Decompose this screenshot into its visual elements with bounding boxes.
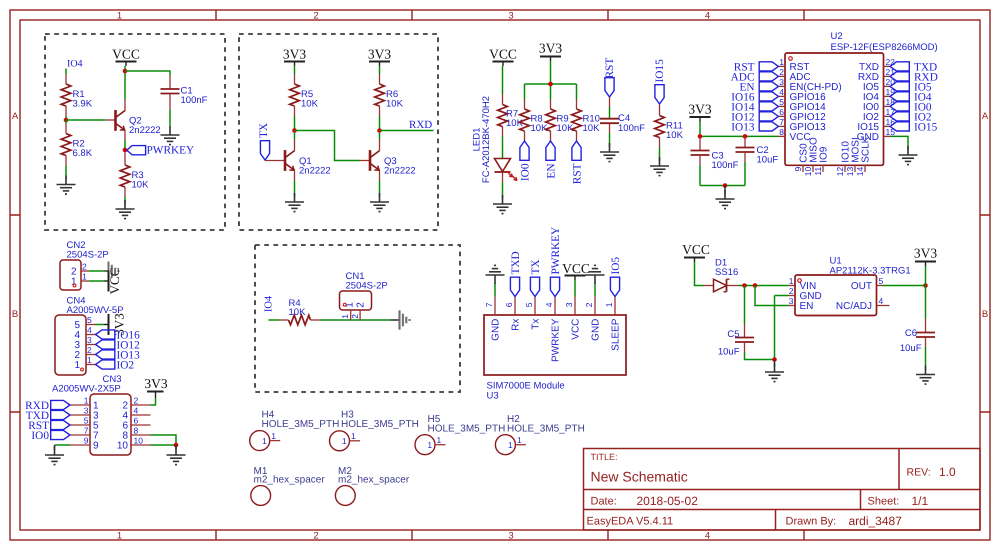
capacitor C5 10uF bbox=[718, 329, 754, 358]
CN3 pin 6 bbox=[122, 416, 150, 432]
svg-text:PWRKEY: PWRKEY bbox=[550, 227, 562, 275]
svg-text:1: 1 bbox=[437, 435, 442, 445]
svg-text:Date:: Date: bbox=[591, 496, 617, 508]
capacitor C3 100nF bbox=[691, 136, 739, 171]
svg-text:TITLE:: TITLE: bbox=[591, 452, 618, 462]
svg-text:3V3: 3V3 bbox=[914, 246, 937, 261]
resistor R7 10K bbox=[498, 105, 524, 130]
node junction U1 ground bbox=[772, 357, 777, 362]
svg-text:PWRKEY: PWRKEY bbox=[551, 318, 562, 362]
node junction C2 top bbox=[743, 134, 748, 139]
svg-text:3: 3 bbox=[508, 11, 513, 22]
svg-text:4: 4 bbox=[879, 296, 884, 306]
svg-text:1: 1 bbox=[84, 396, 89, 406]
svg-text:4: 4 bbox=[134, 406, 139, 416]
net port RXD flag U2 right bbox=[890, 71, 938, 83]
ground under C6 bbox=[916, 366, 935, 385]
net port ADC flag U2 bbox=[731, 71, 779, 83]
U2 pin 17 IO2 bbox=[863, 107, 895, 123]
svg-text:1: 1 bbox=[508, 440, 513, 450]
net port IO5 flag U3 bbox=[610, 257, 622, 297]
svg-text:8: 8 bbox=[779, 127, 784, 137]
wire R1 to node bbox=[65, 106, 67, 120]
U2 pin 21 RXD bbox=[858, 67, 895, 83]
svg-text:RST: RST bbox=[604, 58, 616, 79]
wire CN2 pin2 to ground bbox=[89, 270, 105, 272]
svg-text:3V3: 3V3 bbox=[368, 47, 391, 62]
U3 pin 6 Rx bbox=[504, 297, 521, 331]
CN2 pin 2 bbox=[71, 262, 89, 278]
svg-text:2n2222: 2n2222 bbox=[299, 166, 331, 177]
svg-text:9: 9 bbox=[793, 167, 803, 172]
svg-text:IO4: IO4 bbox=[67, 59, 83, 70]
wire C5 to ground wire bbox=[745, 342, 775, 360]
svg-text:4: 4 bbox=[87, 325, 92, 335]
wire node to R2 bbox=[65, 120, 67, 134]
svg-text:GND: GND bbox=[591, 319, 602, 341]
wire 3V3 to R5 bbox=[294, 66, 296, 84]
ground under R11 bbox=[650, 157, 669, 176]
node junction Q3 collector bbox=[377, 128, 382, 133]
U2 pin 19 IO4 bbox=[863, 87, 895, 103]
svg-text:VCC: VCC bbox=[489, 47, 517, 62]
net port PWRKEY flag bbox=[127, 145, 194, 157]
svg-text:IO15: IO15 bbox=[654, 59, 666, 83]
resistor R5 10K bbox=[290, 84, 319, 110]
power 3V3 over C3 bbox=[688, 102, 711, 122]
svg-text:Sheet:: Sheet: bbox=[868, 496, 900, 508]
svg-text:TXD: TXD bbox=[510, 251, 522, 274]
node junction VCC/C1/Q2 bbox=[123, 69, 128, 74]
U1 pin 5 OUT bbox=[851, 276, 884, 292]
connector CN1 2504S-2P bbox=[340, 271, 388, 310]
U2 bottom pin 13 MOSI bbox=[845, 137, 861, 176]
svg-text:1: 1 bbox=[517, 435, 522, 445]
dashed group box 2 bbox=[239, 34, 438, 230]
svg-text:B: B bbox=[12, 309, 18, 320]
U2 pin 4 GPIO16 bbox=[779, 87, 827, 103]
svg-text:IO9: IO9 bbox=[818, 146, 829, 163]
svg-text:2: 2 bbox=[82, 262, 87, 272]
wire IO4 to R1 bbox=[65, 69, 67, 85]
svg-text:6: 6 bbox=[504, 302, 514, 307]
net port IO4 flag U2 right bbox=[890, 91, 932, 103]
wire R9 to EN flag bbox=[550, 131, 552, 141]
CN3 pin 8 bbox=[122, 426, 150, 442]
wire 3V3 to R6 bbox=[379, 66, 381, 84]
hole H5 bbox=[415, 414, 505, 455]
ground under C2 C3 bbox=[716, 186, 735, 209]
wire 3V3 bus to resistors bbox=[525, 61, 577, 109]
svg-text:2: 2 bbox=[313, 531, 318, 542]
power 3V3 at U1 OUT bbox=[914, 246, 937, 286]
svg-text:5: 5 bbox=[779, 97, 784, 107]
wire R4 to CN1 and ground bbox=[311, 319, 391, 321]
svg-text:2: 2 bbox=[779, 67, 784, 77]
svg-text:9: 9 bbox=[84, 436, 89, 446]
U2 pin 1 RST bbox=[779, 57, 810, 73]
spacer M2 bbox=[335, 466, 409, 506]
node junction Q1 collector bbox=[292, 128, 297, 133]
ground under Q1 bbox=[285, 193, 304, 212]
net port IO2 flag CN4 bbox=[96, 360, 135, 372]
wire OUT to C6 bbox=[925, 286, 927, 333]
svg-text:1.0: 1.0 bbox=[939, 465, 956, 479]
svg-text:1: 1 bbox=[82, 272, 87, 282]
net port RST flag U2 bbox=[734, 61, 779, 73]
transistor Q2 2n2222 bbox=[116, 99, 161, 148]
ground above U3 pin7 bbox=[486, 265, 505, 296]
svg-text:m2_hex_spacer: m2_hex_spacer bbox=[254, 474, 326, 485]
svg-text:1: 1 bbox=[262, 436, 267, 446]
wire 3V3 to U2 VCC pin bbox=[700, 122, 779, 137]
svg-text:2: 2 bbox=[584, 302, 594, 307]
svg-text:5: 5 bbox=[879, 276, 884, 286]
svg-text:4: 4 bbox=[705, 531, 710, 542]
dashed group box 3 bbox=[255, 245, 460, 392]
net port IO0 flag U2 right bbox=[890, 101, 932, 113]
svg-text:6: 6 bbox=[134, 416, 139, 426]
capacitor C4 100nF bbox=[600, 113, 645, 134]
svg-text:SS16: SS16 bbox=[715, 267, 738, 278]
svg-text:3V3: 3V3 bbox=[144, 376, 167, 391]
svg-text:10: 10 bbox=[803, 167, 813, 177]
svg-text:2: 2 bbox=[87, 345, 92, 355]
svg-text:IO5: IO5 bbox=[610, 257, 622, 275]
node junction EN branch bbox=[753, 283, 758, 288]
svg-text:100nF: 100nF bbox=[618, 123, 645, 134]
wire VCC to R7 bbox=[502, 66, 504, 105]
U2 bottom pin 12 IO10 bbox=[835, 141, 851, 177]
svg-text:VCC: VCC bbox=[112, 47, 140, 62]
U2 pin 8 VCC bbox=[779, 127, 811, 143]
svg-text:B: B bbox=[982, 309, 988, 320]
capacitor C1 100nF bbox=[161, 86, 208, 107]
net port IO12 flag U2 bbox=[731, 111, 778, 123]
svg-text:3V3: 3V3 bbox=[688, 102, 711, 117]
svg-text:8: 8 bbox=[134, 426, 139, 436]
svg-text:2n2222: 2n2222 bbox=[384, 166, 416, 177]
power VCC over R7 bbox=[489, 47, 517, 67]
wire R3 to ground bbox=[124, 187, 126, 204]
net port EN flag bbox=[545, 141, 557, 179]
svg-text:3: 3 bbox=[564, 302, 574, 307]
svg-text:REV:: REV: bbox=[907, 467, 931, 479]
svg-text:100nF: 100nF bbox=[181, 95, 208, 106]
net port TX flag bbox=[258, 123, 270, 160]
svg-text:GND: GND bbox=[491, 319, 502, 341]
wire R10 to RST flag bbox=[576, 131, 578, 141]
node junction C3 top bbox=[698, 134, 703, 139]
U2 pin 20 IO5 bbox=[863, 77, 895, 93]
svg-text:2504S-2P: 2504S-2P bbox=[67, 250, 109, 261]
CN3 pin 7 bbox=[70, 426, 99, 442]
U2 pin 18 IO0 bbox=[863, 97, 895, 113]
wire R5 to node bbox=[294, 106, 296, 131]
U3 pin 4 PWRKEY bbox=[544, 297, 561, 362]
U2 bottom pin 11 IO9 bbox=[813, 146, 829, 175]
wire IO4 to R4 bbox=[269, 319, 289, 321]
wire CN3 pin9 to ground bbox=[55, 445, 71, 450]
power 3V3 over R8 R9 R10 bbox=[539, 41, 562, 62]
wire D1 cathode to U1 VIN bbox=[728, 285, 796, 287]
ground under R2 bbox=[57, 176, 76, 195]
CN4 pin 2 bbox=[74, 345, 95, 361]
wire C4 to ground bbox=[609, 123, 611, 147]
svg-text:VCC: VCC bbox=[571, 319, 582, 340]
diode D1 SS16 bbox=[714, 258, 739, 292]
svg-text:TX: TX bbox=[258, 123, 270, 138]
resistor R11 10K bbox=[655, 116, 684, 142]
power VCC box1 bbox=[112, 47, 140, 67]
U3 pin 5 Tx bbox=[524, 297, 541, 330]
svg-text:6: 6 bbox=[779, 107, 784, 117]
ground at CN3 pin9 bbox=[45, 446, 64, 465]
svg-text:3V3: 3V3 bbox=[539, 41, 562, 56]
U2 pin 6 GPIO12 bbox=[779, 107, 827, 123]
connector CN4 A2005WV-5P bbox=[55, 295, 124, 375]
svg-text:14: 14 bbox=[855, 167, 865, 177]
wire EN loop bbox=[755, 286, 789, 306]
svg-text:13: 13 bbox=[845, 167, 855, 177]
wire U1 GND down bbox=[775, 296, 789, 360]
net port IO16 flag U2 bbox=[731, 91, 778, 103]
svg-text:1: 1 bbox=[604, 302, 614, 307]
hole H3 bbox=[330, 409, 419, 451]
CN4 pin 5 bbox=[74, 315, 95, 331]
ground rotated at CN2 pin2 bbox=[105, 262, 119, 281]
svg-text:7: 7 bbox=[779, 117, 784, 127]
resistor R8 10K bbox=[520, 109, 548, 134]
svg-text:IO0: IO0 bbox=[31, 430, 49, 442]
svg-text:10uF: 10uF bbox=[900, 343, 922, 354]
svg-text:3: 3 bbox=[508, 531, 513, 542]
U1 pin 2 GND bbox=[789, 286, 822, 302]
svg-text:VCC: VCC bbox=[107, 268, 122, 295]
svg-text:3: 3 bbox=[87, 335, 92, 345]
svg-text:ESP-12F(ESP8266MOD): ESP-12F(ESP8266MOD) bbox=[831, 42, 938, 53]
net port TX flag U3 bbox=[530, 259, 542, 296]
net port TXD flag U2 right bbox=[890, 61, 937, 73]
wire C6 to ground bbox=[925, 337, 927, 370]
svg-text:EN: EN bbox=[800, 301, 814, 312]
svg-text:10K: 10K bbox=[666, 130, 684, 141]
transistor Q1 2n2222 bbox=[285, 133, 331, 197]
net port IO16 flag CN4 bbox=[96, 330, 141, 342]
svg-text:1: 1 bbox=[117, 531, 122, 542]
CN3 pin 9 bbox=[70, 436, 99, 452]
resistor R3 10K bbox=[120, 165, 149, 191]
net port IO15 flag U2 right bbox=[890, 121, 938, 133]
wire CN3 pin2 to 3V3 bbox=[151, 398, 156, 405]
U2 bottom pin 9 CS0 bbox=[793, 143, 809, 172]
net port IO13 flag U2 bbox=[731, 121, 778, 133]
wire C1 to ground bbox=[169, 94, 171, 127]
wire node to R3 bbox=[124, 152, 126, 165]
svg-text:VCC: VCC bbox=[562, 261, 590, 276]
svg-text:3V3: 3V3 bbox=[283, 47, 306, 62]
svg-text:1: 1 bbox=[74, 360, 80, 371]
svg-text:A2005WV-2X5P: A2005WV-2X5P bbox=[52, 384, 121, 395]
svg-text:EasyEDA V5.4.11: EasyEDA V5.4.11 bbox=[587, 516, 674, 528]
power VCC over D1 bbox=[682, 242, 710, 262]
U2 pin 7 GPIO13 bbox=[779, 117, 827, 133]
wire U1 OUT to 3V3 bbox=[883, 285, 926, 287]
svg-text:7: 7 bbox=[84, 426, 89, 436]
capacitor C2 10uF bbox=[736, 136, 779, 165]
U1 pin 4 NC/ADJ bbox=[836, 296, 890, 312]
ground under Q3 bbox=[370, 193, 389, 212]
node junction R1/R2/base bbox=[64, 118, 69, 123]
power 3V3 over R5 bbox=[283, 47, 306, 67]
wire C3 C2 to ground bbox=[700, 152, 745, 186]
CN3 pin 10 bbox=[117, 436, 151, 452]
module U3 SIM7000E body bbox=[484, 315, 626, 402]
svg-text:2: 2 bbox=[355, 302, 366, 308]
svg-text:4: 4 bbox=[779, 87, 784, 97]
net port IO12 flag CN4 bbox=[96, 340, 141, 352]
svg-text:10K: 10K bbox=[583, 123, 601, 134]
svg-text:RXD: RXD bbox=[409, 119, 432, 131]
wire U2 GND pin to ground bbox=[890, 136, 908, 150]
svg-text:HOLE_3M5_PTH: HOLE_3M5_PTH bbox=[428, 424, 506, 435]
svg-text:NC/ADJ: NC/ADJ bbox=[836, 301, 872, 312]
CN1 pin1 marker bbox=[343, 303, 346, 306]
svg-text:3: 3 bbox=[84, 406, 89, 416]
svg-text:HOLE_3M5_PTH: HOLE_3M5_PTH bbox=[262, 419, 340, 430]
resistor R1 3.9K bbox=[61, 84, 93, 110]
net port PWRKEY flag U3 bbox=[550, 227, 562, 297]
svg-text:5: 5 bbox=[524, 302, 534, 307]
svg-text:C5: C5 bbox=[727, 329, 739, 340]
CN3 pin 5 bbox=[70, 416, 99, 432]
svg-text:1: 1 bbox=[271, 431, 276, 441]
svg-text:HOLE_3M5_PTH: HOLE_3M5_PTH bbox=[507, 424, 585, 435]
net port RST flag over C4 bbox=[604, 58, 616, 97]
svg-text:1: 1 bbox=[779, 57, 784, 67]
node junction emitter/PWRKEY/R3 bbox=[123, 148, 128, 153]
svg-text:3: 3 bbox=[779, 77, 784, 87]
svg-text:OUT: OUT bbox=[851, 281, 872, 292]
CN4 pin 3 bbox=[74, 335, 95, 351]
CN4 pin 4 bbox=[74, 325, 95, 341]
CN3 pin 4 bbox=[122, 406, 150, 422]
net port IO2 flag U2 right bbox=[890, 111, 932, 123]
svg-text:m2_hex_spacer: m2_hex_spacer bbox=[338, 474, 410, 485]
wire R7 to LED1 bbox=[502, 127, 504, 159]
title block bbox=[584, 449, 981, 531]
svg-text:10K: 10K bbox=[132, 180, 150, 191]
svg-text:SCLK: SCLK bbox=[860, 136, 871, 162]
net label RXD wire bbox=[380, 119, 434, 131]
connector CN2 2504S-2P bbox=[60, 240, 109, 290]
wire VCC to D1 anode bbox=[695, 262, 714, 286]
svg-text:1: 1 bbox=[351, 431, 356, 441]
net port RST flag under R10 bbox=[571, 141, 583, 184]
U2 pin 3 EN bbox=[779, 77, 842, 93]
ground under C1 bbox=[161, 126, 180, 145]
U2 bottom pin 10 MISO bbox=[803, 137, 819, 176]
ground under R3 bbox=[116, 200, 135, 219]
node junction OUT bbox=[923, 283, 928, 288]
wire C5 branch down bbox=[744, 286, 746, 338]
svg-text:10K: 10K bbox=[506, 118, 524, 129]
ground under LED1 bbox=[493, 195, 512, 214]
wire RST to C4 bbox=[609, 97, 611, 119]
svg-text:10K: 10K bbox=[289, 307, 307, 318]
LED LED1 FC-A2012BK-470H2 bbox=[472, 96, 518, 183]
ground at U2 GND bbox=[899, 146, 918, 165]
svg-text:6.8K: 6.8K bbox=[73, 148, 93, 159]
CN1 pin 2 bbox=[350, 302, 366, 320]
wire CN4 pin5 to 3V3 bbox=[96, 324, 105, 326]
svg-text:SLEEP: SLEEP bbox=[611, 318, 622, 351]
svg-text:2: 2 bbox=[789, 286, 794, 296]
svg-text:10K: 10K bbox=[386, 99, 404, 110]
wire node to Q2 base bbox=[66, 119, 115, 121]
net label IO4 rotated bbox=[264, 295, 275, 312]
U1 pin 3 EN bbox=[789, 296, 814, 312]
svg-text:2018-05-02: 2018-05-02 bbox=[637, 494, 699, 508]
U2 pin 15 GND bbox=[857, 127, 895, 143]
U3 pin 2 GND bbox=[584, 297, 601, 341]
U3 pin 7 GND bbox=[484, 297, 501, 341]
svg-text:10uF: 10uF bbox=[718, 347, 740, 358]
svg-text:EN: EN bbox=[545, 164, 557, 179]
svg-text:7: 7 bbox=[484, 302, 494, 307]
resistor R6 10K bbox=[375, 84, 404, 110]
CN2 pin1 marker bbox=[73, 284, 76, 287]
svg-text:RST: RST bbox=[571, 163, 583, 184]
svg-text:HOLE_3M5_PTH: HOLE_3M5_PTH bbox=[341, 419, 419, 430]
U3 pin 1 SLEEP bbox=[604, 297, 621, 351]
svg-text:PWRKEY: PWRKEY bbox=[147, 145, 195, 157]
svg-text:Drawn By:: Drawn By: bbox=[786, 516, 837, 528]
wire R6 to node bbox=[379, 106, 381, 131]
svg-text:IO2: IO2 bbox=[117, 360, 135, 372]
net port IO5 flag U2 right bbox=[890, 81, 932, 93]
net port IO13 flag CN4 bbox=[96, 350, 141, 362]
wire Q1 collector to Q3 base bbox=[295, 131, 371, 161]
svg-text:1/1: 1/1 bbox=[912, 494, 929, 508]
svg-text:9: 9 bbox=[93, 441, 99, 452]
svg-text:5: 5 bbox=[84, 416, 89, 426]
net port TXD flag CN3 bbox=[26, 410, 70, 422]
svg-text:1: 1 bbox=[427, 440, 432, 450]
svg-text:1: 1 bbox=[789, 276, 794, 286]
svg-text:ardi_3487: ardi_3487 bbox=[849, 514, 903, 528]
svg-text:A: A bbox=[982, 111, 989, 122]
U2 pin 2 ADC bbox=[779, 67, 811, 83]
node junction CN3 ground bbox=[174, 443, 179, 448]
svg-text:5: 5 bbox=[87, 315, 92, 325]
U2 pin 22 TXD bbox=[859, 57, 895, 73]
CN4 pin1 marker bbox=[81, 368, 84, 371]
ground at CN3 pin10 bbox=[167, 445, 186, 465]
svg-text:U2: U2 bbox=[831, 31, 843, 42]
U3 pin 3 VCC bbox=[564, 297, 581, 340]
ground rotated at CN1 wire end bbox=[391, 310, 410, 329]
net port IO15 flag bbox=[654, 59, 666, 104]
svg-text:Tx: Tx bbox=[531, 319, 542, 330]
svg-text:2n2222: 2n2222 bbox=[129, 125, 161, 136]
CN3 pin 2 bbox=[122, 396, 150, 412]
svg-text:10: 10 bbox=[134, 436, 144, 446]
svg-text:New Schematic: New Schematic bbox=[591, 469, 688, 485]
svg-text:2: 2 bbox=[350, 314, 360, 319]
wire TX to Q1 base bbox=[265, 160, 285, 162]
power 3V3 over R6 bbox=[368, 47, 391, 67]
